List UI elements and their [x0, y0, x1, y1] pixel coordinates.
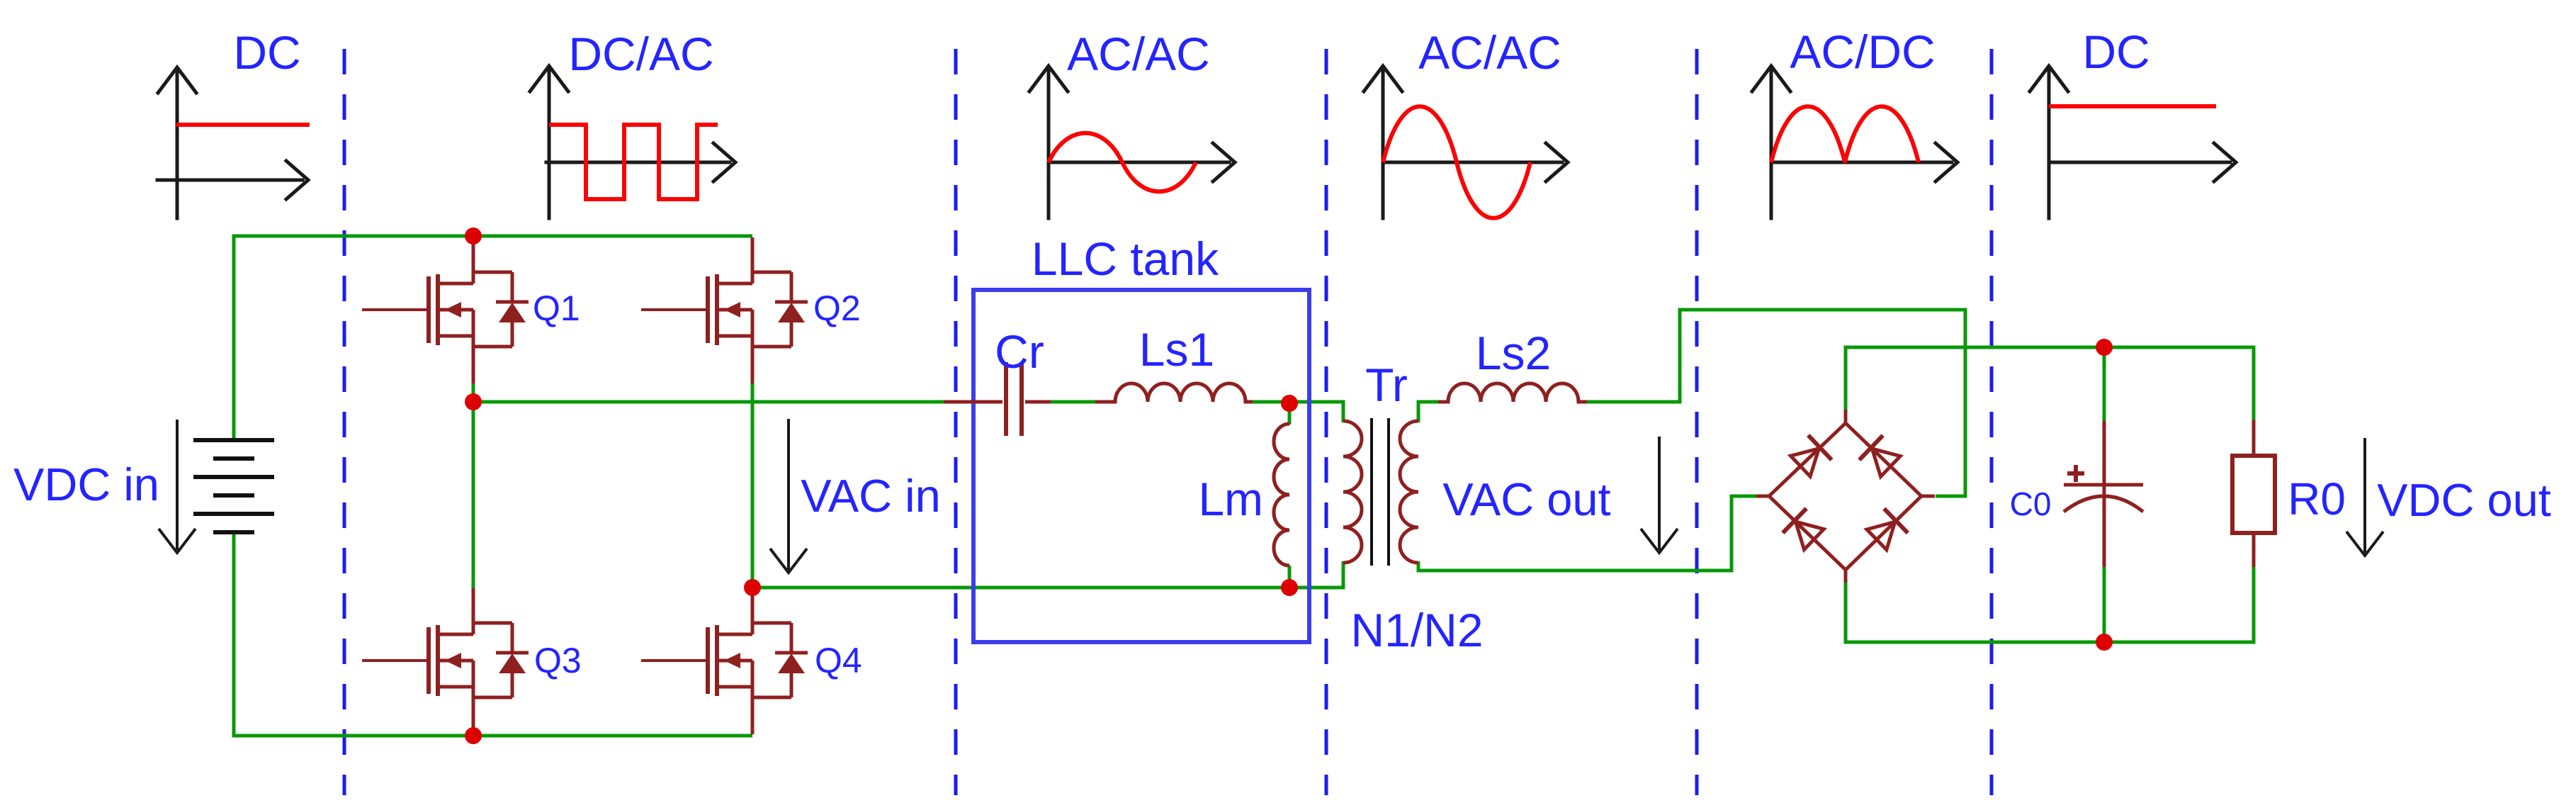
wire: secondary bottom to bridge AC2 [1418, 496, 1756, 571]
wire: node A to Cr [471, 400, 944, 404]
junction dot: C0 bottom [2096, 634, 2113, 651]
VDC out arrow [2346, 438, 2383, 556]
svg-text:LLC tank: LLC tank [1032, 232, 1219, 285]
section separator dashed line 3 [1325, 49, 1328, 795]
svg-text:DC: DC [233, 26, 300, 79]
inductor Ls1 [1095, 383, 1253, 402]
diode D1 (left corner to top corner) [1789, 435, 1832, 478]
transformer Tr core [1372, 418, 1389, 566]
diode D3 (bottom corner to left corner) [1783, 508, 1826, 551]
junction dot: Lm top [1281, 395, 1298, 412]
diode D4 (bottom corner to right corner) [1865, 509, 1908, 552]
wire: VDC+ top rail [234, 236, 752, 440]
junction dot: C0 top [2096, 339, 2113, 356]
wire: C0 top lead wire [2103, 347, 2106, 422]
wire: Lm top stub [1288, 404, 1292, 425]
svg-text:R0: R0 [2288, 473, 2346, 524]
wire: Ls2 to bridge AC1 (upper route) [1584, 310, 1965, 496]
wire: secondary top to Ls2 [1418, 402, 1448, 422]
svg-text:C0: C0 [2010, 485, 2052, 522]
battery VDC in source [193, 440, 274, 532]
LLC tank box [973, 290, 1309, 642]
svg-text:Ls1: Ls1 [1139, 323, 1214, 376]
wire: VDC- bottom rail [234, 532, 752, 736]
svg-text:VDC in: VDC in [13, 459, 159, 510]
capacitor C0 (polarized) [2064, 421, 2143, 567]
svg-text:DC/AC: DC/AC [568, 28, 713, 80]
VAC in arrow [770, 419, 807, 573]
wire: Q2 source down to node B [751, 383, 755, 588]
section separator dashed line 2 [954, 49, 958, 795]
svg-text:VAC in: VAC in [801, 470, 940, 522]
svg-text:Ls2: Ls2 [1476, 327, 1551, 379]
wire: Lm bottom stub [1288, 566, 1292, 588]
svg-text:Cr: Cr [995, 325, 1044, 378]
capacitor Cr [944, 362, 1051, 436]
svg-text:N1/N2: N1/N2 [1350, 604, 1483, 656]
wire: C0 bottom lead wire [2103, 566, 2106, 642]
section separator dashed line 4 [1695, 49, 1699, 795]
junction dot: bottom rail / Q3 source [465, 727, 482, 744]
waveform graph 6: DC output [2030, 26, 2236, 218]
VAC out arrow [1641, 437, 1678, 553]
transformer Tr secondary winding [1400, 421, 1418, 563]
resistor R0 [2232, 420, 2275, 567]
bridge pin stubs [1844, 410, 1848, 423]
svg-text:Lm: Lm [1198, 473, 1263, 525]
bridge frame edges [1769, 423, 1846, 496]
wire: Cr to Ls1 [1049, 400, 1097, 404]
junction dot: Lm bottom [1281, 579, 1298, 596]
svg-text:AC/DC: AC/DC [1790, 26, 1935, 78]
wire: bridge DC+ to output top rail [1846, 347, 2254, 422]
svg-text:Q2: Q2 [813, 288, 861, 328]
svg-text:AC/AC: AC/AC [1418, 26, 1561, 79]
wire: node A rail (VAC in +) [472, 382, 475, 402]
wire: Ls1 to Lm junction to primary top [1250, 402, 1343, 422]
waveform graph 4: AC/AC large sine [1364, 26, 1568, 218]
section separator dashed line 1 [343, 49, 346, 795]
wire: node B rail to transformer primary [752, 561, 1343, 588]
junction dot: node A [465, 393, 482, 410]
svg-text:AC/AC: AC/AC [1067, 28, 1210, 80]
junction dot: top rail / Q1 drain [465, 228, 482, 245]
transformer Tr primary winding [1343, 421, 1362, 563]
waveform graph 1: DC input [157, 26, 310, 218]
svg-text:Q1: Q1 [533, 288, 580, 328]
svg-text:Q3: Q3 [534, 641, 582, 680]
diode bridge rectifier [1756, 410, 1935, 583]
transistor Q1 [362, 237, 529, 383]
wire: node A down to Q3 drain [472, 402, 475, 590]
junction dot: node B [744, 579, 761, 596]
inductor Lm [1274, 424, 1289, 566]
svg-text:VDC out: VDC out [2377, 474, 2551, 526]
waveform graph 5: AC/DC rectified sine [1752, 26, 1958, 218]
waveform graph 2: DC/AC square wave [530, 28, 735, 218]
svg-text:Tr: Tr [1365, 359, 1408, 411]
transistor Q2 [641, 237, 808, 383]
svg-text:Q4: Q4 [815, 641, 862, 680]
svg-text:DC: DC [2082, 26, 2150, 78]
diode D2 (right corner to top corner) [1859, 435, 1902, 478]
waveform graph 3: AC/AC small sine [1029, 28, 1235, 218]
VDC in arrow [159, 420, 196, 553]
section separator dashed line 5 [1990, 49, 1994, 795]
svg-text:VAC out: VAC out [1442, 473, 1610, 525]
transistor Q3 [362, 588, 529, 734]
transistor Q4 [641, 588, 808, 734]
wire: bridge DC- to output bottom rail [1846, 566, 2254, 642]
inductor Ls2 [1438, 383, 1587, 402]
